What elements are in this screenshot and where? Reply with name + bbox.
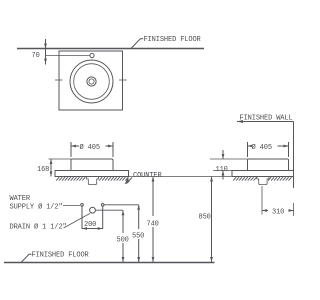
svg-text:200: 200: [84, 221, 96, 229]
svg-text:850: 850: [199, 214, 211, 222]
svg-text:FINISHED FLOOR: FINISHED FLOOR: [144, 36, 202, 44]
svg-text:COUNTER: COUNTER: [133, 172, 162, 180]
svg-text:168: 168: [37, 166, 49, 174]
svg-text:110: 110: [216, 166, 228, 174]
svg-text:70: 70: [32, 52, 40, 60]
svg-text:FINISHED FLOOR: FINISHED FLOOR: [32, 252, 90, 260]
svg-text:DRAIN Ø 1 1/2": DRAIN Ø 1 1/2": [10, 223, 67, 232]
svg-text:740: 740: [147, 221, 159, 229]
svg-text:Ø 405: Ø 405: [80, 143, 100, 152]
svg-text:FINISHED WALL: FINISHED WALL: [240, 115, 293, 123]
svg-text:500: 500: [117, 237, 129, 245]
svg-text:550: 550: [132, 233, 144, 241]
svg-text:Ø 405: Ø 405: [252, 143, 272, 152]
svg-text:WATER: WATER: [10, 195, 31, 203]
svg-text:310: 310: [272, 209, 284, 217]
svg-text:SUPPLY Ø 1/2": SUPPLY Ø 1/2": [10, 203, 63, 212]
